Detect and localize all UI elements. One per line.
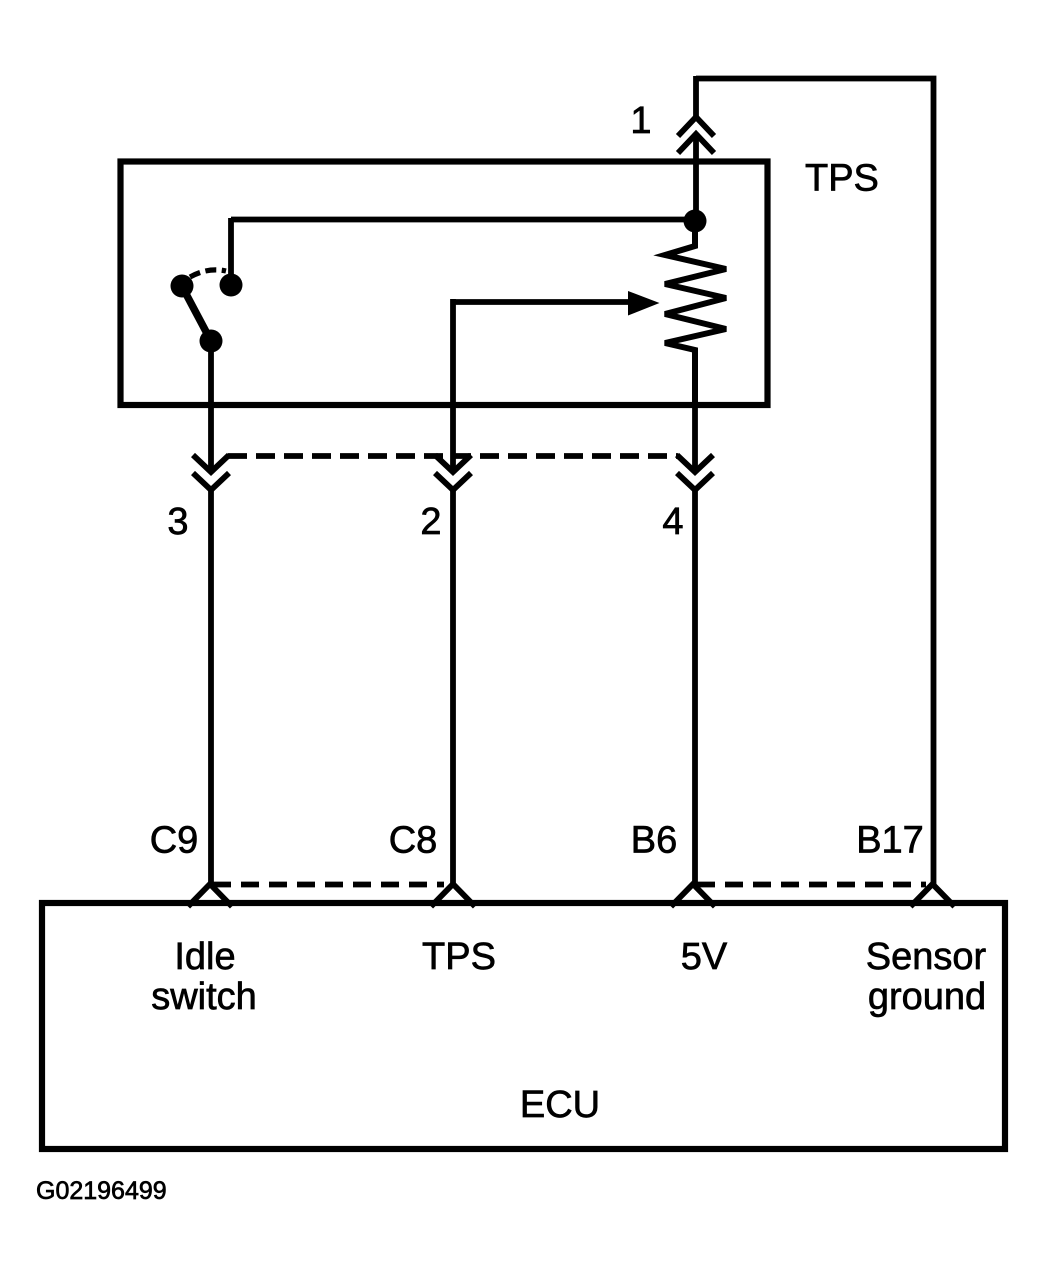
- svg-text:2: 2: [420, 501, 441, 543]
- wire: pin 3 down to ECU C9: [208, 489, 214, 884]
- wire: resistor bottom to connector pin 4: [692, 348, 698, 469]
- ECU pin triangle C8: [431, 884, 475, 907]
- switch fixed contact dot: [220, 274, 243, 297]
- svg-text:ground: ground: [868, 976, 986, 1018]
- node: junction dot potentiometer top: [684, 210, 707, 233]
- switch pivot dot: [200, 330, 223, 353]
- ECU pin triangle B6: [671, 884, 715, 907]
- inline connector pin 3 (double chevron down): [193, 455, 229, 490]
- svg-text:ECU: ECU: [520, 1084, 600, 1126]
- wire: pin 1 stub above connector: [693, 76, 699, 118]
- wire: sensor ground loop from pin1 top across and down to B17: [696, 79, 934, 885]
- switch arm end dot: [171, 275, 194, 298]
- inline connector pin 2 (double chevron down): [435, 455, 471, 490]
- wire: pin 1 into potentiometer top: [693, 135, 699, 222]
- potentiometer wiper arrow wire: [453, 299, 632, 305]
- ECU pin triangle B17: [911, 884, 955, 907]
- svg-text:Idle: Idle: [174, 936, 235, 978]
- svg-text:C9: C9: [150, 820, 199, 862]
- wire: horizontal from switch contact to junction: [231, 217, 690, 223]
- switch arm (idle switch blade): [185, 292, 211, 341]
- wire: switch contact stub: [228, 218, 234, 276]
- wire: pin 4 down to ECU B6: [692, 489, 698, 884]
- wire: pin 2 down to ECU C8: [450, 489, 456, 884]
- connector pin 1 (double chevron up): [678, 117, 714, 153]
- svg-text:Sensor: Sensor: [866, 936, 987, 978]
- potentiometer resistor zigzag: [665, 221, 726, 404]
- svg-text:TPS: TPS: [422, 936, 496, 978]
- svg-text:3: 3: [167, 501, 188, 543]
- ECU box: [42, 903, 1005, 1149]
- svg-text:4: 4: [662, 501, 683, 543]
- dashed ECU connector line B6-B17: [697, 882, 926, 888]
- TPS sensor box: [121, 162, 768, 406]
- dashed ECU connector line C9-C8: [213, 882, 444, 888]
- svg-text:switch: switch: [151, 976, 257, 1018]
- svg-text:TPS: TPS: [805, 158, 879, 200]
- svg-text:B6: B6: [631, 820, 677, 862]
- svg-text:C8: C8: [389, 820, 438, 862]
- svg-text:1: 1: [630, 100, 651, 142]
- switch travel dashed arc: [190, 270, 226, 277]
- svg-text:5V: 5V: [681, 936, 728, 978]
- inline connector pin 4 (double chevron down): [677, 455, 713, 490]
- potentiometer wiper arrowhead: [628, 291, 660, 316]
- wire: wiper line up segment (pin 2): [450, 299, 456, 469]
- dashed inline connector line pins 3-2-4: [228, 453, 678, 459]
- wire: idle switch down to connector pin 3: [208, 341, 214, 469]
- svg-text:G02196499: G02196499: [36, 1177, 167, 1205]
- ECU pin triangle C9: [188, 884, 232, 907]
- svg-text:B17: B17: [856, 820, 924, 862]
